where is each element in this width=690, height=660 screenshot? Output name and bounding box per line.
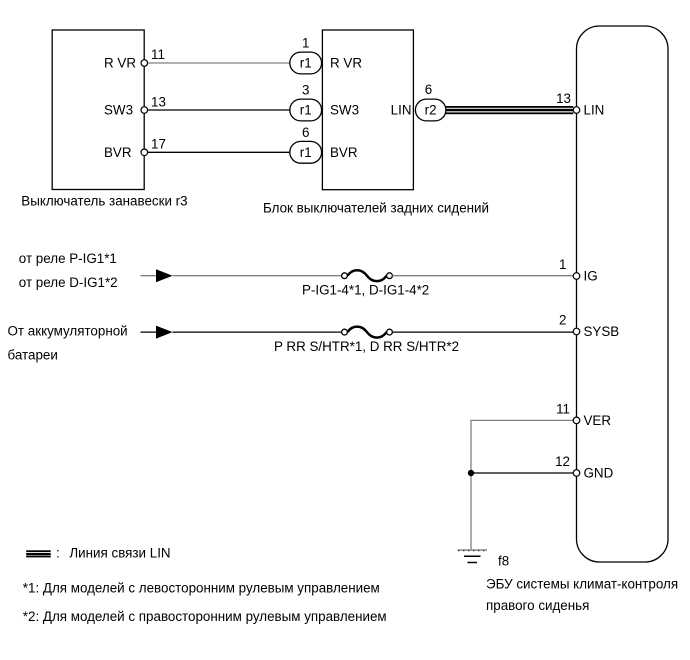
svg-text:SYSB: SYSB (584, 324, 620, 339)
svg-text:Линия связи LIN: Линия связи LIN (69, 546, 170, 561)
connector oval r1 (R VR) (290, 52, 322, 74)
wire BVR (black) (148, 151, 290, 153)
svg-text:BVR: BVR (330, 145, 358, 160)
svg-text:LIN: LIN (584, 103, 605, 118)
svg-text:От аккумуляторной: От аккумуляторной (8, 324, 128, 339)
wire fuse to ECU SYSB (black) (392, 331, 573, 333)
svg-text:11: 11 (151, 47, 165, 62)
svg-text:от реле D-IG1*2: от реле D-IG1*2 (19, 275, 118, 290)
connector oval r2 (LIN) (415, 99, 446, 121)
svg-text:батареи: батареи (8, 348, 58, 363)
terminal circle pin 13 (ECU LIN) (573, 107, 580, 114)
svg-text:Выключатель занавески r3: Выключатель занавески r3 (21, 193, 187, 208)
terminal circle pin 2 (ECU SYSB) (573, 328, 580, 335)
wire R VR (gray) (148, 62, 290, 64)
svg-text:r2: r2 (425, 103, 437, 118)
svg-text:P-IG1-4*1, D-IG1-4*2: P-IG1-4*1, D-IG1-4*2 (302, 282, 429, 297)
svg-text::: : (56, 546, 60, 561)
svg-text:P RR S/HTR*1, D RR S/HTR*2: P RR S/HTR*1, D RR S/HTR*2 (274, 339, 459, 354)
svg-text:IG: IG (584, 269, 598, 284)
svg-text:6: 6 (425, 82, 432, 97)
fuse element (wavy) (348, 327, 387, 338)
svg-text:*2: Для моделей с правосторонн: *2: Для моделей с правосторонним рулевым… (23, 609, 387, 624)
svg-text:LIN: LIN (391, 103, 412, 118)
terminal circle pin 11 (ECU VER) (573, 417, 580, 424)
arrow (SYSB feed) (156, 326, 173, 339)
svg-text:ЭБУ системы климат-контроля: ЭБУ системы климат-контроля (486, 577, 678, 592)
wire VER horizontal (gray) (471, 419, 573, 421)
svg-text:6: 6 (302, 125, 309, 140)
wire SW3 (black) (148, 109, 290, 111)
svg-text:правого сиденья: правого сиденья (486, 598, 589, 613)
fuse P RR S/HTR right circle (387, 329, 393, 335)
terminal circle pin 11 (141, 60, 148, 67)
svg-text:Блок выключателей задних сиден: Блок выключателей задних сидений (263, 200, 489, 215)
junction dot (468, 470, 474, 476)
svg-text:R VR: R VR (330, 56, 362, 71)
fuse element (wavy) (348, 270, 387, 281)
svg-text:13: 13 (151, 94, 166, 109)
svg-text:11: 11 (556, 401, 570, 416)
svg-text:1: 1 (302, 36, 309, 51)
wire VER vertical (gray) (470, 420, 472, 550)
svg-text:12: 12 (555, 454, 570, 469)
curtain switch box r3 (52, 30, 144, 190)
terminal circle pin 1 (ECU IG) (573, 273, 580, 280)
connector oval r1 (SW3) (290, 99, 322, 121)
fuse P-IG1-4 right circle (387, 273, 393, 279)
svg-text:R VR: R VR (104, 56, 136, 71)
svg-text:17: 17 (151, 136, 166, 151)
wire SYSB pre-arrow (black) (141, 331, 159, 333)
wire IG to fuse (gray) (173, 275, 342, 277)
svg-text:GND: GND (584, 466, 614, 481)
svg-text:f8: f8 (498, 554, 509, 569)
terminal circle pin 13 (141, 107, 148, 114)
terminal circle pin 12 (ECU GND) (573, 470, 580, 477)
ECU box (right) (577, 26, 669, 562)
svg-text:1: 1 (559, 257, 566, 272)
svg-text:VER: VER (584, 413, 612, 428)
svg-text:BVR: BVR (104, 145, 132, 160)
svg-text:r1: r1 (300, 56, 312, 71)
svg-text:3: 3 (302, 83, 309, 98)
wire IG pre-arrow (gray) (141, 275, 159, 277)
fuse P RR S/HTR left circle (342, 329, 348, 335)
svg-text:13: 13 (556, 91, 571, 106)
connector oval r1 (BVR) (290, 141, 322, 163)
wire SYSB to fuse (black) (173, 331, 342, 333)
svg-text:r1: r1 (300, 145, 312, 160)
wire GND (black) (471, 472, 573, 474)
arrow (IG feed) (156, 269, 173, 282)
svg-text:*1: Для моделей с левосторонни: *1: Для моделей с левосторонним рулевым … (23, 581, 380, 596)
terminal circle pin 17 (141, 149, 148, 156)
LIN bus line (triple) (446, 106, 573, 114)
svg-text:r1: r1 (300, 103, 312, 118)
legend LIN bus sample (26, 550, 51, 557)
rear seat switch block box (322, 30, 413, 190)
svg-text:от реле P-IG1*1: от реле P-IG1*1 (19, 251, 117, 266)
svg-text:SW3: SW3 (104, 103, 133, 118)
svg-text:2: 2 (559, 313, 566, 328)
fuse P-IG1-4 left circle (342, 273, 348, 279)
svg-text:SW3: SW3 (330, 103, 359, 118)
wire fuse to ECU IG (gray) (392, 275, 573, 277)
ground symbol (458, 550, 488, 563)
